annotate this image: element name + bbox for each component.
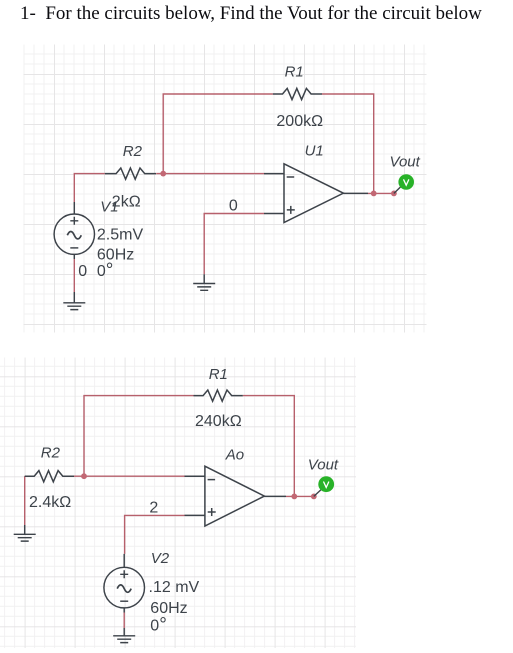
wire node B up to R1 left (feedback, bottom)	[84, 396, 194, 477]
svg-text:.12 mV: .12 mV	[149, 579, 200, 596]
junction node A (R2/feedback)	[160, 171, 166, 177]
svg-text:60Hz: 60Hz	[150, 600, 187, 617]
wire R2 right to U1 inverting input	[156, 173, 264, 175]
wire R1 right down to output node	[322, 94, 374, 193]
wire ground to U1 non-inverting input	[204, 214, 264, 275]
svg-text:R2: R2	[41, 445, 61, 462]
probe Vout (bottom)	[314, 489, 322, 496]
wire V2 minus to ground	[123, 613, 125, 629]
svg-text:60Hz: 60Hz	[97, 246, 134, 263]
svg-text:2.5mV: 2.5mV	[97, 227, 144, 244]
svg-text:R1: R1	[209, 366, 228, 383]
grid panel (top schematic sheet)	[24, 45, 427, 333]
svg-text:0: 0	[78, 263, 87, 280]
voltage source V2	[104, 554, 145, 613]
junction probe tap (bottom)	[311, 494, 317, 500]
wire V2 plus to Ao non-inverting input	[125, 515, 185, 554]
svg-text:R1: R1	[285, 64, 304, 81]
junction probe tap	[391, 191, 397, 197]
svg-text:0: 0	[229, 198, 238, 215]
wire node A up to R1 left (feedback)	[163, 94, 273, 174]
svg-text:240kΩ: 240kΩ	[195, 413, 242, 430]
probe Vout (top)	[394, 186, 402, 193]
svg-text:0°: 0°	[150, 614, 167, 635]
op-amp U1	[264, 164, 368, 223]
svg-text:Vout: Vout	[308, 456, 339, 473]
resistor R1 (feedback, top)	[273, 88, 322, 99]
ground (under V2)	[113, 628, 135, 643]
wire R2 right to Ao inverting input	[74, 475, 185, 477]
svg-text:200kΩ: 200kΩ	[276, 113, 323, 130]
svg-text:V2: V2	[151, 550, 170, 567]
ground (at U1 non-inverting input)	[193, 274, 215, 290]
ground (at R2, bottom left)	[14, 525, 36, 541]
svg-text:R2: R2	[123, 143, 143, 160]
resistor R2 (input, top)	[105, 168, 156, 179]
wire V1 minus to ground	[73, 259, 75, 292]
wire output node to probe tap	[368, 192, 394, 194]
svg-text:0°: 0°	[97, 260, 114, 281]
ground (under V1)	[63, 292, 85, 310]
wire R1 right down to output node (bottom)	[243, 396, 294, 497]
voltage source V1	[54, 202, 94, 259]
svg-text:2: 2	[149, 500, 158, 517]
junction node B (R2/feedback, bottom)	[81, 473, 87, 479]
wire output node to probe tap (bottom)	[286, 495, 314, 497]
wire R2 left down to ground	[24, 476, 26, 525]
grid panel (bottom schematic sheet)	[0, 358, 356, 649]
junction output/feedback	[371, 191, 377, 197]
svg-text:V1: V1	[100, 199, 118, 216]
title text	[20, 3, 482, 25]
junction output/feedback (bottom)	[291, 494, 297, 500]
svg-text:2.4kΩ: 2.4kΩ	[29, 494, 71, 511]
op-amp Ao	[185, 466, 287, 526]
svg-text:U1: U1	[305, 142, 324, 159]
resistor R1 (feedback, bottom)	[194, 390, 243, 401]
svg-text:Vout: Vout	[390, 153, 421, 170]
svg-text:Ao: Ao	[225, 446, 244, 463]
wire V1 plus to R2 left	[74, 174, 105, 202]
resistor R2 (input, bottom)	[25, 471, 74, 482]
